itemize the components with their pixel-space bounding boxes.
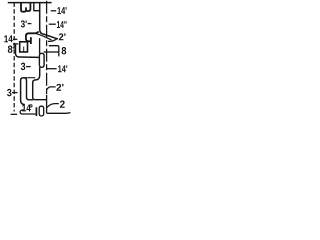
leader 2' mid bbox=[47, 87, 56, 90]
channel U rung bbox=[33, 10, 40, 12]
leader 3 far left bbox=[12, 92, 18, 94]
label 3 lower bbox=[21, 63, 25, 70]
leader 2 bottom bbox=[47, 104, 59, 108]
hook J1 under rail bbox=[21, 3, 26, 12]
top rail bbox=[8, 2, 52, 4]
knob pill bottom bbox=[39, 106, 44, 116]
leader 14'' right bbox=[49, 23, 56, 25]
channel U left wall bbox=[33, 3, 35, 11]
label 3' upper bbox=[21, 20, 27, 27]
channel hood and outer wall bbox=[21, 78, 27, 105]
inner flange line bbox=[36, 33, 52, 40]
web vertical with corner to flange bbox=[40, 3, 58, 39]
label 14 left bbox=[4, 35, 12, 42]
T serif bbox=[13, 43, 18, 45]
knob bar bottom bbox=[35, 107, 37, 116]
label 2 bottom right bbox=[60, 100, 65, 107]
label 14' mid right bbox=[58, 65, 67, 72]
channel inner wall into rung bbox=[27, 80, 34, 100]
leader 14 left bbox=[13, 38, 17, 40]
ring hook bbox=[20, 42, 28, 52]
leader 8 left bbox=[13, 47, 16, 49]
bottom line left with curled end bbox=[20, 110, 35, 114]
capsule leg S-curve wall and rung bbox=[33, 67, 47, 99]
label 3 far left bbox=[7, 89, 11, 96]
label 8 right bbox=[62, 47, 67, 54]
right tab top bbox=[49, 46, 59, 57]
centerline left (dashed) bbox=[13, 3, 15, 112]
leader 3 bbox=[26, 66, 31, 68]
right tab bottom bbox=[44, 51, 59, 53]
centerline left bottom tick bbox=[11, 113, 18, 115]
label 2' right bbox=[59, 33, 66, 40]
leader 14' mid right bbox=[47, 68, 57, 70]
capsule stem bbox=[39, 38, 41, 53]
centerline right (dashed) bbox=[46, 1, 48, 97]
label 14 bottom degree mark bbox=[30, 105, 32, 107]
ring hook inner bar bbox=[23, 47, 25, 52]
leader 3' bbox=[28, 23, 32, 25]
claw J2 under rail bbox=[27, 3, 31, 11]
centerline right solid lower part bbox=[46, 95, 48, 113]
label 14' top right bbox=[57, 7, 66, 14]
capsule knob bbox=[39, 53, 44, 67]
leader 14' top right bbox=[51, 10, 56, 12]
label 14 bottom bbox=[22, 105, 30, 112]
claw C middle bbox=[26, 31, 39, 41]
leader 2' right bbox=[48, 38, 58, 41]
label 14'' right bbox=[57, 21, 67, 28]
bottom rail right bbox=[47, 111, 71, 114]
claw toe bbox=[30, 37, 32, 44]
label 2' mid bbox=[56, 84, 63, 91]
channel top line bbox=[24, 77, 35, 79]
label 8 left bbox=[8, 45, 13, 52]
T vertical into bottom flange bbox=[16, 44, 39, 57]
